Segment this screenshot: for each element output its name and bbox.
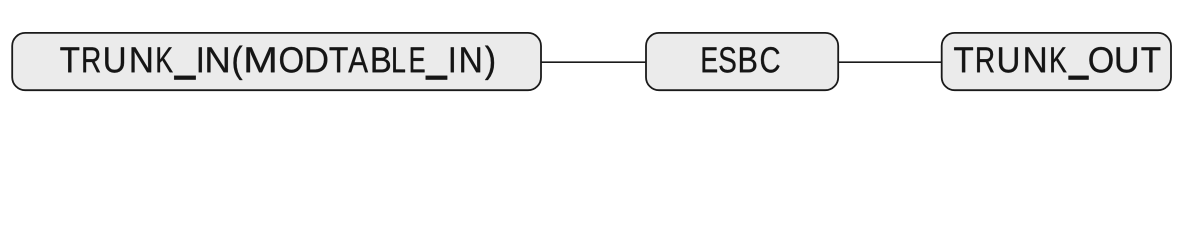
node ESBC [646, 33, 838, 90]
node TRUNK_OUT [942, 33, 1171, 90]
node TRUNK_IN(MODTABLE_IN) [12, 33, 541, 90]
wire TRUNK_IN to ESBC [541, 61, 646, 63]
wire ESBC to TRUNK_OUT [838, 61, 942, 63]
